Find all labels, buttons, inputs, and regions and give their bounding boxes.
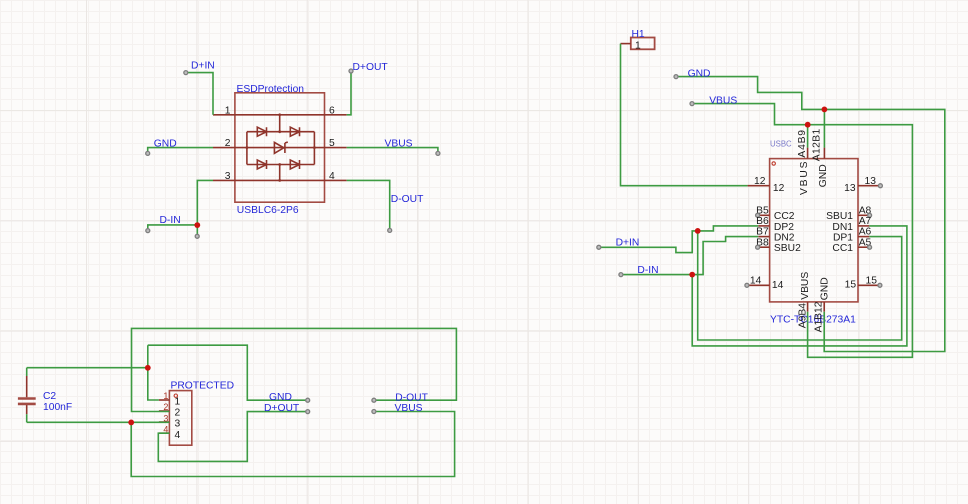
wire GND net bottom-left [27, 345, 308, 400]
svg-text:3: 3 [175, 419, 181, 430]
svg-text:D-IN: D-IN [160, 215, 181, 226]
svg-text:1: 1 [225, 105, 231, 116]
pin name SBU1 [826, 211, 853, 222]
pin VBUS bottom stub [807, 302, 809, 312]
pin A5 stub [858, 237, 872, 249]
svg-text:VBUS: VBUS [395, 403, 423, 414]
svg-text:6: 6 [329, 105, 335, 116]
pin 2 stub of PROTECTED [159, 402, 181, 418]
svg-text:DN2: DN2 [774, 233, 795, 244]
svg-text:100nF: 100nF [43, 402, 72, 413]
svg-text:1: 1 [175, 397, 181, 408]
pin name VBUS vertical top [799, 160, 810, 195]
svg-text:1: 1 [635, 40, 641, 51]
junction GND right [822, 107, 828, 113]
junction GND-C2 [145, 365, 151, 371]
svg-text:VBUS: VBUS [709, 95, 737, 106]
svg-text:3: 3 [225, 171, 231, 182]
node GND endpoint right [674, 75, 678, 79]
pin 14 stub [745, 275, 784, 291]
node D+OUT endpoint [349, 69, 353, 73]
pin name DN1 [832, 222, 853, 233]
value label YTC-TB16273A1 [770, 315, 856, 326]
svg-text:D+IN: D+IN [191, 61, 215, 72]
pin A7 stub [858, 216, 872, 227]
label 100nF [43, 402, 72, 413]
pin 3 stub of PROTECTED [159, 413, 181, 429]
pin A6 stub [858, 227, 872, 238]
svg-text:C2: C2 [43, 391, 56, 402]
node VBUS endpoint [436, 151, 440, 155]
svg-text:D+OUT: D+OUT [264, 403, 300, 414]
label ESDProtection [237, 84, 305, 95]
wire VBUS net bottom [27, 412, 455, 477]
svg-text:SBU1: SBU1 [826, 211, 853, 222]
pin 4 stub of PROTECTED [159, 424, 181, 440]
svg-text:12: 12 [754, 176, 766, 187]
pin 6 stub of USBLC6 [325, 105, 347, 116]
label VBUS right [709, 95, 737, 106]
label D-IN right [637, 265, 658, 276]
label D+IN right [616, 237, 640, 248]
pin VBUS top stub [807, 148, 809, 159]
label C2 [43, 391, 56, 402]
svg-text:D+IN: D+IN [616, 237, 640, 248]
pin 5 stub of USBLC6 [325, 138, 347, 149]
diode D-upper-left [257, 127, 266, 136]
label GND right [688, 68, 711, 79]
svg-text:4: 4 [175, 430, 181, 441]
label D-IN [160, 215, 181, 226]
wire VBUS (right of ESD) [347, 148, 438, 152]
svg-text:GND: GND [818, 164, 829, 187]
svg-text:1: 1 [163, 391, 168, 401]
connector J1 PROTECTED [169, 391, 191, 446]
node GND endpoint bottom [306, 398, 310, 402]
junction D-IN right [689, 272, 695, 278]
op-amp U1 ESDProtection box USBLC6-2P6 [235, 93, 325, 202]
wire D-OUT [347, 180, 390, 228]
label D+OUT [353, 62, 389, 73]
pin label A1B12 vertical [814, 301, 825, 332]
label D+OUT bottom [264, 403, 300, 414]
pin label A9B4 vertical [798, 303, 809, 328]
label USBC [770, 140, 792, 149]
connector H1 [631, 38, 655, 50]
node VBUS endpoint right [690, 102, 694, 106]
svg-text:USBLC6-2P6: USBLC6-2P6 [237, 205, 299, 216]
svg-text:14: 14 [750, 275, 762, 286]
svg-text:12: 12 [773, 183, 785, 194]
svg-text:VBUS: VBUS [385, 138, 413, 149]
wire H1 to pin 12 [621, 44, 748, 186]
pin name GND vertical bottom [820, 277, 831, 300]
wire D+OUT net bottom [158, 412, 307, 462]
node GND endpoint [146, 151, 150, 155]
svg-text:D+OUT: D+OUT [353, 62, 389, 73]
label PROTECTED [171, 381, 235, 392]
pin 4 stub of USBLC6 [325, 171, 347, 182]
label D-OUT [391, 194, 424, 205]
label GND bottom [269, 392, 292, 403]
node D-IN endpoint right [619, 273, 623, 277]
svg-text:D-OUT: D-OUT [395, 392, 428, 403]
pin 1 stub of PROTECTED [159, 391, 181, 407]
pin B7 stub [756, 227, 770, 238]
pin B5 stub [756, 205, 770, 217]
svg-text:GND: GND [820, 277, 831, 300]
wire D+IN net right [599, 226, 902, 340]
svg-text:VBUS: VBUS [799, 160, 810, 195]
svg-text:PROTECTED: PROTECTED [171, 381, 235, 392]
diode D-lower-right [290, 160, 299, 169]
label GND [154, 138, 177, 149]
node D+IN endpoint [184, 71, 188, 75]
svg-text:DP1: DP1 [833, 233, 853, 244]
pin B8 stub [756, 237, 770, 249]
pin GND top stub [823, 148, 825, 159]
svg-text:D-OUT: D-OUT [391, 194, 424, 205]
label D-OUT bottom [395, 392, 428, 403]
label H1 [632, 29, 645, 40]
svg-text:VBUS: VBUS [800, 272, 811, 300]
svg-text:CC1: CC1 [832, 243, 853, 254]
pin 3 stub of USBLC6 [213, 171, 235, 182]
wire GND net right [676, 77, 945, 352]
junction VBUS right [805, 122, 811, 128]
pin label A12B1 vertical [812, 128, 823, 161]
pin 1 marker circle [174, 394, 177, 397]
svg-text:5: 5 [329, 138, 335, 149]
pin GND bottom stub [823, 302, 825, 312]
junction D-IN [194, 222, 200, 228]
svg-text:13: 13 [865, 176, 877, 187]
svg-text:D-IN: D-IN [637, 265, 658, 276]
pin name CC2 [774, 211, 795, 222]
pin label A4B9 vertical [797, 129, 808, 157]
node D+OUT endpoint bottom [306, 410, 310, 414]
node D-IN endpoint below [195, 234, 199, 238]
node D+IN endpoint right [597, 245, 601, 249]
capacitor C2 100nF [18, 368, 36, 423]
node D-OUT endpoint bottom [372, 398, 376, 402]
pin name GND vertical top [818, 164, 829, 187]
pin name SBU2 [774, 243, 801, 254]
svg-text:15: 15 [866, 275, 878, 286]
value label USBLC6-2P6 [237, 205, 299, 216]
svg-text:2: 2 [175, 408, 181, 419]
wire D+OUT (top) [347, 72, 351, 115]
svg-text:GND: GND [269, 392, 292, 403]
node D-IN endpoint left [146, 229, 150, 233]
diode D-lower-left [257, 160, 266, 169]
pin 1 of H1 [621, 40, 642, 51]
svg-text:USBC: USBC [770, 140, 792, 149]
label VBUS bottom [395, 403, 423, 414]
internal rails of USBLC6 [235, 115, 325, 181]
junction VBUS-C2 [128, 420, 134, 426]
svg-text:14: 14 [772, 280, 784, 291]
svg-text:15: 15 [845, 280, 857, 291]
wire D-IN [148, 180, 213, 234]
connector U2 USB-C YTC box [770, 159, 858, 302]
wire D+IN (top left) [186, 73, 213, 115]
pin 13 stub [844, 176, 882, 194]
junction D+IN right [695, 228, 701, 234]
internal diode bridge frame [247, 115, 315, 181]
pin 1 stub of USBLC6 [213, 105, 235, 116]
pin name DP1 [833, 233, 853, 244]
svg-text:2: 2 [225, 138, 231, 149]
node VBUS endpoint bottom [372, 410, 376, 414]
pin B6 stub [756, 216, 770, 227]
pin 2 stub of USBLC6 [213, 138, 235, 149]
label VBUS [385, 138, 413, 149]
svg-text:DP2: DP2 [774, 222, 794, 233]
internal junction dots [246, 113, 316, 181]
svg-text:A12B1: A12B1 [812, 128, 823, 161]
zener diode center [274, 142, 287, 153]
svg-text:H1: H1 [632, 29, 645, 40]
pin name VBUS vertical bottom [800, 272, 811, 300]
pin 12 stub [748, 176, 785, 194]
pin name CC1 [832, 243, 853, 254]
svg-text:A4B9: A4B9 [797, 129, 808, 157]
pin 1 marker circle USB-C [772, 162, 775, 165]
svg-text:CC2: CC2 [774, 211, 795, 222]
svg-text:SBU2: SBU2 [774, 243, 801, 254]
svg-text:DN1: DN1 [832, 222, 853, 233]
svg-text:13: 13 [844, 183, 856, 194]
svg-text:GND: GND [688, 68, 711, 79]
pin name DN2 [774, 233, 795, 244]
node D-OUT endpoint [388, 228, 392, 232]
wire D-OUT net bottom [132, 328, 457, 411]
label D+IN [191, 61, 215, 72]
wire D-IN net right [621, 226, 907, 346]
svg-text:GND: GND [154, 138, 177, 149]
diode D-upper-right [290, 127, 299, 136]
wire GND (left of ESD) [148, 148, 213, 152]
pin A8 stub [858, 205, 872, 217]
pin 15 stub [845, 275, 882, 290]
svg-text:A1B12: A1B12 [814, 301, 825, 332]
svg-text:4: 4 [329, 171, 335, 182]
svg-text:ESDProtection: ESDProtection [237, 84, 305, 95]
pin name DP2 [774, 222, 794, 233]
wire VBUS net right [692, 104, 912, 358]
